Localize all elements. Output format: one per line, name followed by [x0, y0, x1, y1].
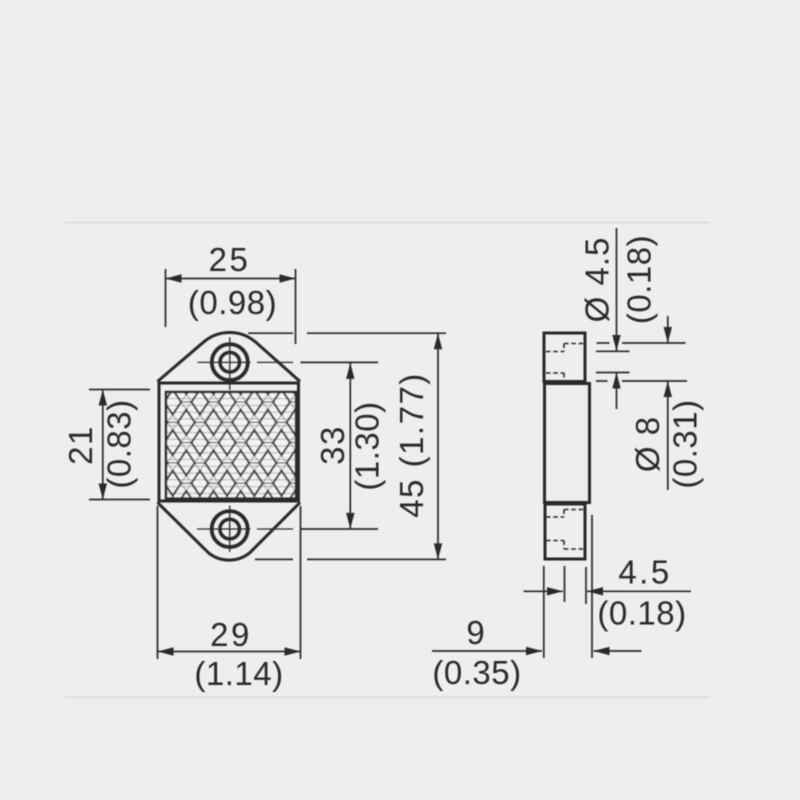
body outline rect	[159, 383, 299, 501]
svg-text:9: 9	[466, 614, 485, 651]
bottom tab rect	[545, 504, 585, 559]
svg-text:(0.98): (0.98)	[188, 284, 277, 321]
faint top rule	[65, 222, 710, 224]
svg-text:(0.35): (0.35)	[432, 654, 521, 691]
svg-text:25: 25	[209, 241, 251, 278]
svg-text:(0.83): (0.83)	[101, 399, 138, 488]
svg-text:45 (1.77): 45 (1.77)	[393, 372, 430, 518]
svg-text:4.5: 4.5	[618, 554, 671, 591]
reflective area with pattern	[166, 392, 296, 499]
top hole outer circle	[212, 344, 248, 380]
bottom hole crosshair	[197, 506, 293, 552]
top hole inner circle	[220, 352, 240, 372]
dim 4.5 (0.18) bottom of side view	[524, 515, 692, 658]
svg-text:(0.31): (0.31)	[667, 399, 704, 488]
svg-text:21: 21	[62, 425, 99, 465]
body rect	[545, 384, 590, 503]
top hole crosshair	[198, 337, 294, 390]
dim 45 (1.77) right outer	[248, 333, 446, 559]
hidden hole lines top tab	[546, 344, 585, 381]
dim Ø4.5 (0.18)	[596, 228, 687, 409]
bottom hole inner circle	[220, 519, 240, 539]
dim Ø8 (0.31)	[667, 316, 669, 490]
bottom hole outer circle	[212, 511, 248, 547]
svg-text:29: 29	[210, 616, 252, 653]
svg-text:(1.30): (1.30)	[349, 401, 386, 490]
dim 29 (1.14) bottom	[158, 506, 301, 659]
svg-text:(1.14): (1.14)	[194, 655, 283, 692]
hidden hole lines bottom tab	[546, 510, 584, 550]
svg-text:Ø 8: Ø 8	[629, 416, 666, 472]
dim 21 (0.83) left	[89, 390, 150, 500]
svg-text:33: 33	[314, 425, 351, 465]
faint bottom rule	[65, 696, 710, 698]
dim 33 (1.30) right inner	[301, 362, 379, 529]
svg-text:(0.18): (0.18)	[621, 235, 658, 324]
svg-text:Ø 4.5: Ø 4.5	[579, 237, 616, 323]
svg-text:(0.18): (0.18)	[597, 595, 686, 632]
dim 25 (0.98) top	[166, 269, 296, 344]
top mounting tab outline	[158, 332, 301, 381]
dim 9 (0.35) bottom of side view	[432, 650, 642, 652]
top tab rect	[544, 333, 585, 382]
bottom mounting tab outline	[158, 503, 301, 561]
